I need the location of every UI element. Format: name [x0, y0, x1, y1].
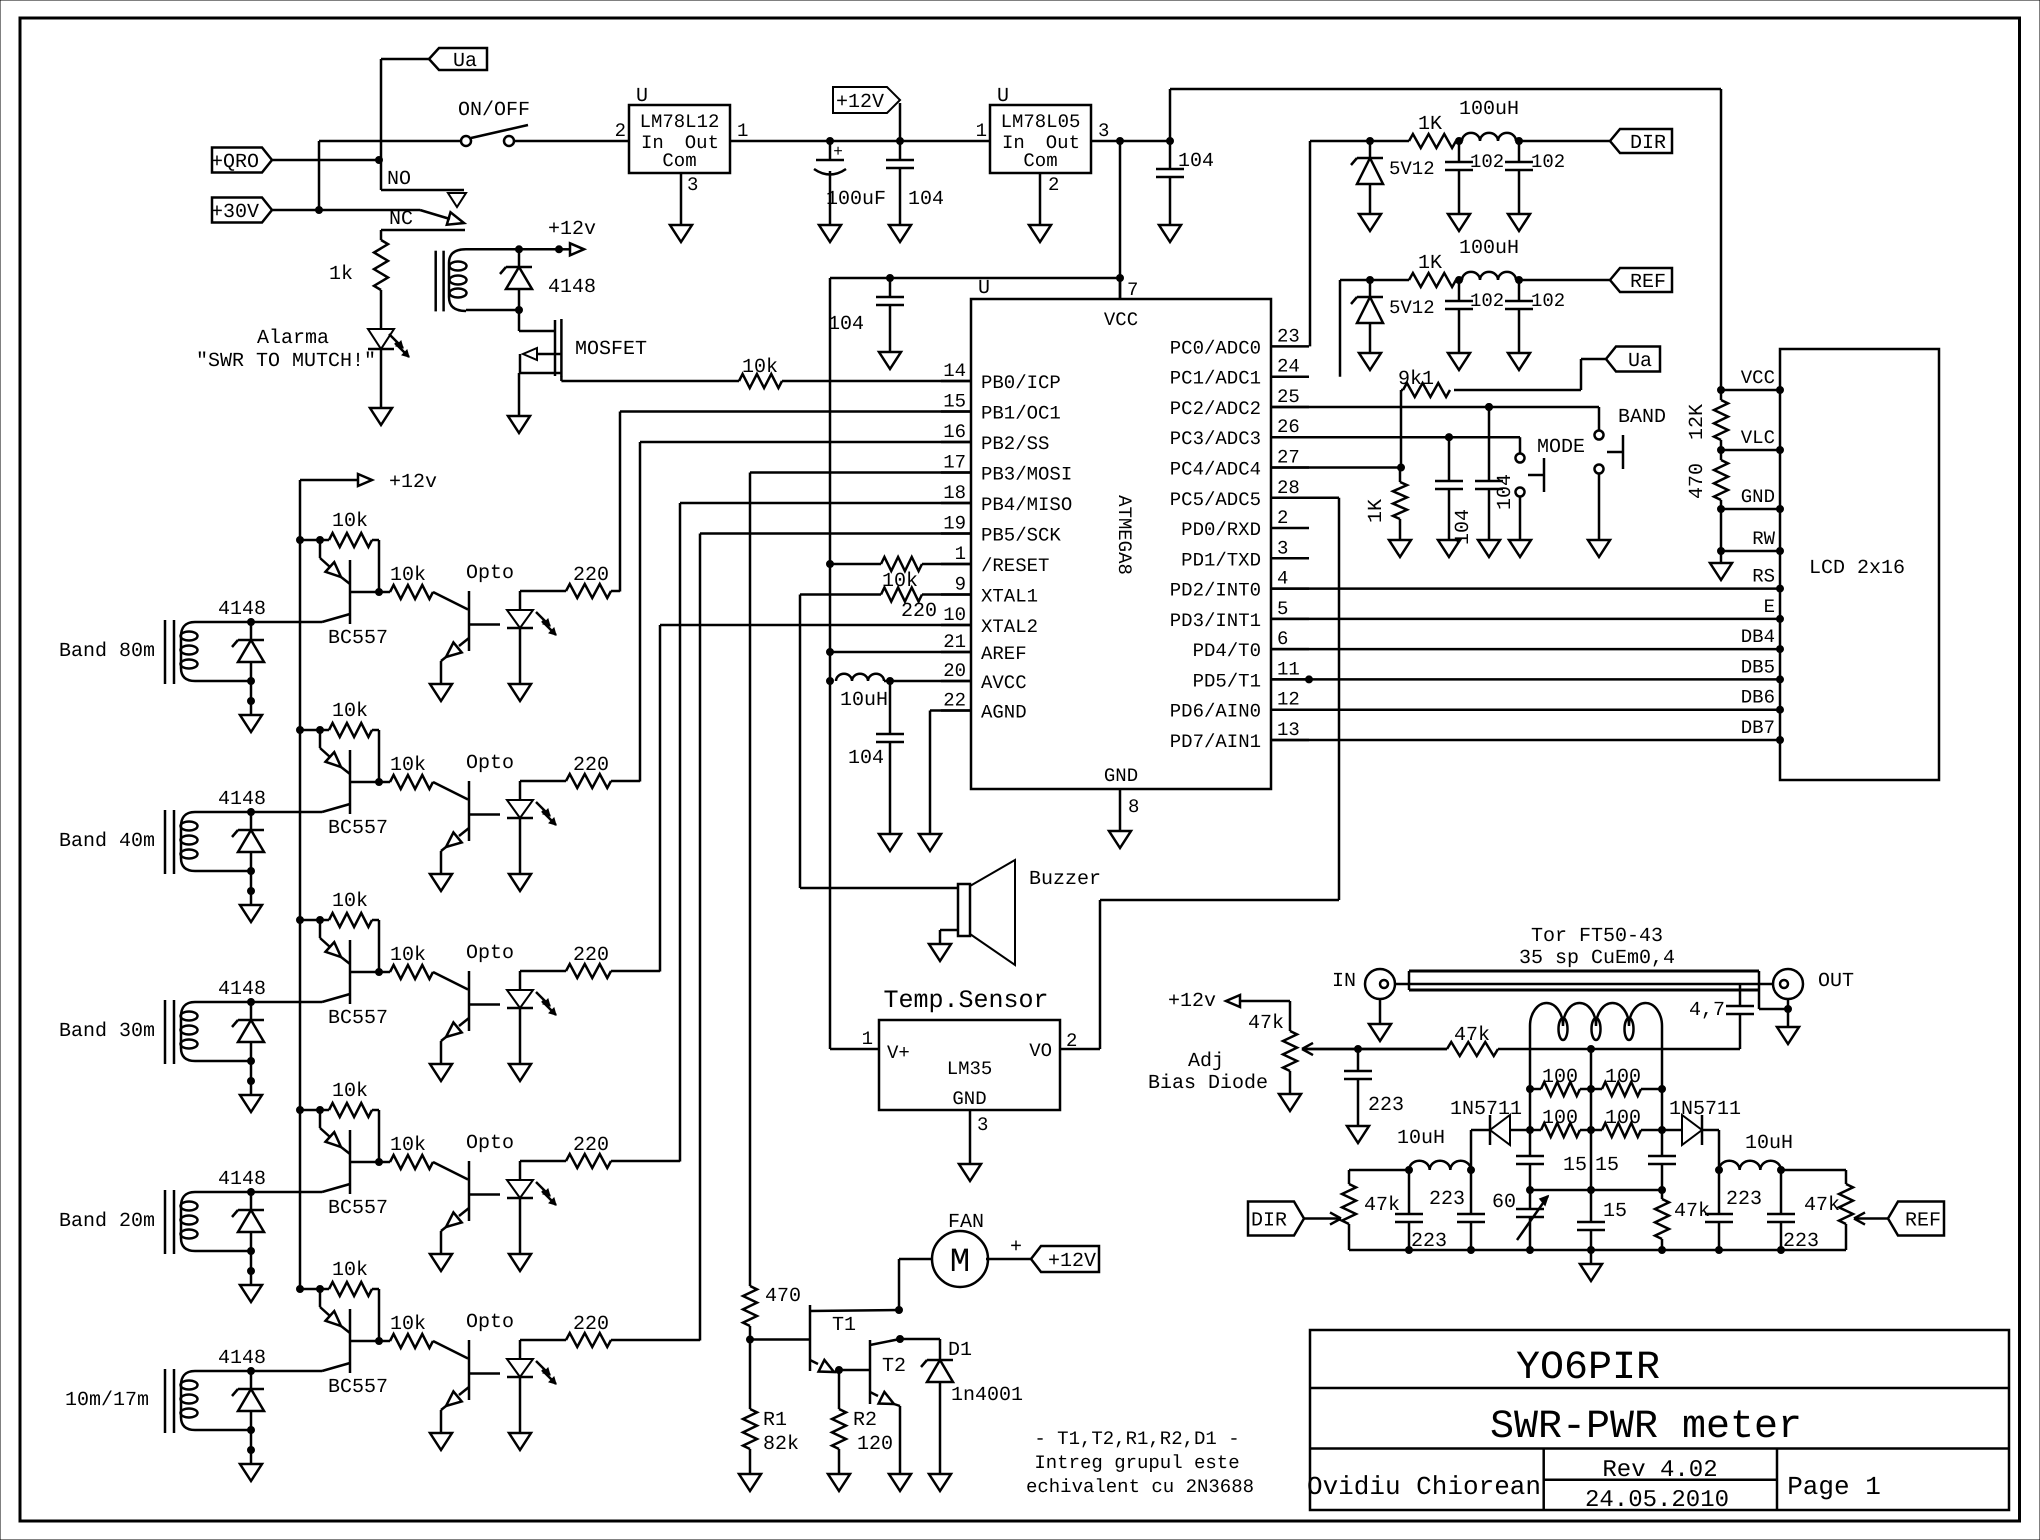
label Temp.Sensor [883, 986, 1048, 1015]
svg-text:Opto: Opto [466, 752, 514, 775]
svg-text:102: 102 [1531, 151, 1565, 173]
svg-text:DIR: DIR [1630, 132, 1666, 155]
+12v rail (band drivers) [300, 480, 358, 1289]
label 47k (REF pot) [1804, 1194, 1840, 1217]
wire PB5 to band5 [700, 534, 971, 1341]
LCD pin RW [1718, 528, 1784, 555]
pin 9 XTAL1 [941, 574, 1038, 608]
svg-text:R2: R2 [853, 1409, 877, 1432]
svg-text:4148: 4148 [218, 788, 266, 811]
ground below 100uF [819, 225, 841, 242]
svg-text:14: 14 [943, 360, 966, 382]
svg-text:4148: 4148 [218, 1168, 266, 1191]
wire PC2 row [1271, 404, 1599, 411]
svg-text:DB4: DB4 [1741, 626, 1775, 648]
optocoupler LED band1 [507, 591, 556, 684]
svg-text:GND: GND [1741, 486, 1775, 508]
svg-text:NO: NO [387, 168, 411, 191]
svg-text:47k: 47k [1248, 1012, 1284, 1035]
pin 23 PC0/ADC0 [1170, 325, 1309, 359]
capacitor 104 (AVCC) [848, 681, 904, 834]
regulator U LM78L05 [976, 85, 1110, 196]
label 47k (detector) [1674, 1200, 1710, 1223]
svg-text:220: 220 [573, 1313, 609, 1336]
svg-text:223: 223 [1429, 1188, 1465, 1211]
label 9k1 [1398, 368, 1434, 391]
svg-text:100uH: 100uH [1459, 98, 1519, 121]
resistor 10k base band2 [379, 775, 468, 800]
svg-text:100uF: 100uF [826, 188, 886, 211]
pushbutton MODE [1516, 437, 1545, 540]
title block frame [1310, 1330, 2009, 1510]
label 47k (DIR pot) [1364, 1194, 1400, 1217]
wire MOSFET drain to 10k [561, 376, 739, 381]
svg-text:1K: 1K [1418, 113, 1442, 136]
capacitor 104 (PC2) [1475, 404, 1517, 541]
ground below LM35 [959, 1164, 981, 1181]
resistor 1K (DIR) [1409, 134, 1463, 148]
svg-text:24: 24 [1277, 356, 1300, 378]
svg-text:XTAL2: XTAL2 [981, 616, 1038, 638]
resistor 220 band5 [520, 1333, 700, 1347]
svg-text:PC3/ADC3: PC3/ADC3 [1170, 428, 1261, 450]
diode 4148 band4 [232, 1192, 264, 1251]
svg-text:102: 102 [1470, 151, 1504, 173]
diode D1 1n4001 [900, 1339, 1023, 1474]
ground below D1 [929, 1474, 951, 1491]
ground below zener (DIR) [1359, 214, 1381, 231]
capacitor 102 a (REF) [1445, 280, 1504, 353]
wire LCD GND to RW [1720, 509, 1723, 563]
label 10k base band2 [390, 754, 426, 777]
optocoupler transistor band2 [441, 781, 500, 874]
wire line end to OUT [1759, 990, 1788, 1009]
resistor 10k pullup band2 [300, 723, 383, 786]
ground below IN [1369, 1024, 1391, 1041]
svg-text:GND: GND [952, 1088, 986, 1110]
ground below 104 (12V rail) [889, 225, 911, 242]
svg-text:5V12: 5V12 [1389, 297, 1435, 319]
svg-text:2: 2 [1277, 507, 1288, 529]
relay contact NO [381, 190, 466, 207]
svg-text:VCC: VCC [1104, 309, 1138, 331]
label 100 r1a [1542, 1066, 1578, 1089]
svg-text:4148: 4148 [218, 1347, 266, 1370]
svg-text:100uH: 100uH [1459, 237, 1519, 260]
wire relay bottom band3 [195, 1058, 255, 1096]
pin 16 PB2/SS [941, 421, 1049, 455]
transistor T2 [836, 1336, 907, 1475]
svg-text:+30V: +30V [211, 201, 259, 224]
LCD pin VLC [1718, 427, 1784, 454]
svg-text:Opto: Opto [466, 1311, 514, 1334]
title date 24.05.2010 [1585, 1487, 1729, 1514]
relay coil band3 [165, 1000, 198, 1064]
net flag DIR [1610, 129, 1672, 155]
wire Ua to 9k1 [1454, 359, 1606, 390]
ground below alarm LED [370, 408, 392, 425]
svg-text:470: 470 [765, 1285, 801, 1308]
optocoupler LED band5 [507, 1340, 556, 1433]
svg-text:+12v: +12v [1168, 990, 1216, 1013]
pin 19 PB5/SCK [941, 513, 1061, 547]
label 4,7 [1689, 999, 1725, 1022]
svg-text:4: 4 [1277, 568, 1288, 590]
svg-text:U: U [636, 85, 648, 108]
wire +30V [272, 209, 420, 212]
ground below buzzer [929, 944, 951, 961]
ground below relay band3 [240, 1095, 262, 1112]
svg-text:RS: RS [1752, 566, 1775, 588]
label band name Band 40m [59, 830, 155, 853]
svg-text:DIR: DIR [1251, 1209, 1287, 1232]
svg-text:10k: 10k [332, 700, 368, 723]
svg-text:220: 220 [573, 754, 609, 777]
wire XTAL2 to band3 [660, 625, 971, 972]
label BAND [1618, 406, 1666, 429]
svg-text:Intreg grupul este: Intreg grupul este [1034, 1452, 1239, 1474]
label OUT [1818, 970, 1854, 993]
svg-text:MOSFET: MOSFET [575, 338, 647, 361]
resistor 47k bias series [1447, 1042, 1498, 1056]
wire LM78L12 out [730, 140, 990, 143]
pin 24 PC1/ADC1 [1170, 356, 1309, 390]
capacitor 102 a (DIR) [1445, 141, 1504, 214]
svg-text:E: E [1764, 596, 1775, 618]
svg-text:1n4001: 1n4001 [951, 1384, 1023, 1407]
wire winding left leg [1527, 1026, 1534, 1093]
label 10k base band4 [390, 1134, 426, 1157]
ground below opto LED band1 [509, 684, 531, 701]
label 35 sp CuEm0,4 [1519, 947, 1675, 970]
svg-text:Band 40m: Band 40m [59, 830, 155, 853]
svg-text:- T1,T2,R1,R2,D1 -: - T1,T2,R1,R2,D1 - [1034, 1428, 1239, 1450]
note T1 T2 equivalence [1026, 1428, 1254, 1498]
svg-text:10uH: 10uH [840, 689, 888, 712]
svg-text:10: 10 [943, 604, 966, 626]
ground below opto transistor band2 [430, 874, 452, 891]
resistor 1K (PC4 divider) [1365, 468, 1407, 541]
svg-text:102: 102 [1531, 290, 1565, 312]
label 10k pullup band3 [332, 890, 368, 913]
svg-text:AREF: AREF [981, 643, 1027, 665]
label BC557 band2 [328, 817, 388, 840]
svg-text:25: 25 [1277, 386, 1300, 408]
wire relay bottom band5 [195, 1427, 255, 1465]
ground below 104 PC2 [1478, 540, 1500, 557]
svg-text:PD7/AIN1: PD7/AIN1 [1170, 731, 1261, 753]
wire PC5 to LM35 [1060, 498, 1339, 1049]
wire PB4 to band4 [680, 503, 971, 1162]
resistor 10k base band4 [379, 1155, 468, 1180]
label band name 10m/17m [65, 1389, 149, 1412]
relay contact pole [381, 230, 465, 240]
ground below 104 (VCC MCU) [879, 352, 901, 369]
wire PD7 to LCD DB7 [1271, 737, 1784, 744]
svg-text:SWR-PWR meter: SWR-PWR meter [1490, 1405, 1802, 1450]
svg-text:Page 1: Page 1 [1787, 1472, 1881, 1502]
power arrow +12v (bias) [1226, 995, 1290, 1007]
label NO [387, 168, 411, 191]
svg-text:8: 8 [1128, 796, 1139, 818]
svg-text:220: 220 [901, 600, 937, 623]
wire PB1 to band1 [620, 412, 971, 592]
svg-text:VCC: VCC [1741, 367, 1775, 389]
power arrow +12v (alarm relay) [548, 218, 596, 255]
ground below BAND [1588, 540, 1610, 557]
ground below 223 bias [1347, 1126, 1369, 1143]
inductor 10uH left [1397, 1127, 1471, 1174]
svg-text:120: 120 [857, 1433, 893, 1456]
title author Ovidiu Chiorean [1307, 1472, 1541, 1502]
wire PC4 row [1271, 466, 1401, 469]
ground below opto LED band2 [509, 874, 531, 891]
label 4148 band1 [218, 598, 266, 621]
label Opto band5 [466, 1311, 514, 1334]
optocoupler LED band4 [507, 1161, 556, 1254]
pin 26 PC3/ADC3 [1170, 416, 1309, 450]
svg-text:10m/17m: 10m/17m [65, 1389, 149, 1412]
diode 4148 flyback (alarm relay) [500, 249, 532, 310]
svg-text:1: 1 [737, 120, 748, 142]
wire PD6 to LCD DB6 [1271, 706, 1784, 713]
svg-text:Adj: Adj [1188, 1050, 1224, 1073]
diode 4148 band3 [232, 1002, 264, 1061]
inductor 10uH (AVCC) [827, 674, 972, 685]
pin 28 PC5/ADC5 [1170, 477, 1309, 511]
svg-text:U: U [978, 277, 990, 300]
ground below R2 [828, 1474, 850, 1491]
svg-text:104: 104 [828, 313, 864, 336]
resistor 10k pullup band4 [300, 1103, 383, 1166]
ground below R1 [739, 1474, 761, 1491]
wire winding right leg [1659, 1026, 1666, 1093]
resistor 220 band2 [520, 774, 640, 788]
svg-text:BC557: BC557 [328, 627, 388, 650]
label BC557 band5 [328, 1376, 388, 1399]
optocoupler LED band3 [507, 971, 556, 1064]
capacitor 102 b (REF) [1505, 280, 1565, 353]
svg-text:RW: RW [1752, 528, 1775, 550]
svg-text:11: 11 [1277, 658, 1300, 680]
svg-text:PB0/ICP: PB0/ICP [981, 372, 1061, 394]
wire relay bottom band2 [195, 868, 255, 906]
wire PD2 to LCD RS [1271, 585, 1784, 592]
svg-text:PB5/SCK: PB5/SCK [981, 525, 1061, 547]
ground below OUT [1777, 1027, 1799, 1044]
resistor 470 (LCD contrast) [1686, 450, 1728, 509]
pin 6 PD4/T0 [1193, 628, 1309, 662]
optocoupler transistor band5 [441, 1340, 500, 1433]
label 10k base band1 [390, 564, 426, 587]
ground below LM78L05 [1029, 225, 1051, 242]
LCD pin GND [1718, 486, 1784, 513]
ground below 104 PC3 [1438, 540, 1460, 557]
transistor BC557 band5 [320, 1289, 379, 1373]
svg-text:1K: 1K [1365, 499, 1388, 523]
connector IN [1365, 969, 1395, 1024]
sensor LM35 [862, 1020, 1078, 1136]
label 10k base band3 [390, 944, 426, 967]
svg-text:5V12: 5V12 [1389, 158, 1435, 180]
label 10k pullup band5 [332, 1259, 368, 1282]
svg-text:Opto: Opto [466, 942, 514, 965]
capacitor 100uF [814, 138, 886, 226]
svg-text:OUT: OUT [1818, 970, 1854, 993]
label 1N5711 (left) [1450, 1098, 1522, 1121]
wire relay top band3 [195, 999, 322, 1006]
pin 10 XTAL2 [941, 604, 1038, 638]
resistor 220 band1 [520, 584, 620, 598]
pushbutton BAND [1595, 407, 1624, 540]
label 10k pullup band2 [332, 700, 368, 723]
resistor 470 (fan) [743, 1286, 757, 1343]
svg-text:Temp.Sensor: Temp.Sensor [883, 986, 1048, 1015]
wire PB3 to fan driver [750, 473, 971, 1287]
svg-text:2: 2 [1048, 174, 1059, 196]
label 4148 band4 [218, 1168, 266, 1191]
inductor 100uH (REF) [1462, 272, 1610, 284]
label 4148 (alarm) [548, 276, 596, 299]
svg-text:M: M [950, 1244, 970, 1282]
diode 1N5711 left [1468, 1115, 1530, 1174]
svg-text:PB2/SS: PB2/SS [981, 433, 1049, 455]
potentiometer 47k DIR [1342, 1170, 1409, 1250]
svg-text:10k: 10k [332, 1259, 368, 1282]
svg-text:15: 15 [943, 391, 966, 413]
label ON/OFF [458, 99, 530, 122]
ground below 102 a (DIR) [1448, 214, 1470, 231]
label FAN [948, 1211, 984, 1234]
svg-text:PD2/INT0: PD2/INT0 [1170, 580, 1261, 602]
wire LM78L05 com [1039, 173, 1042, 225]
label 220 band5 [573, 1313, 609, 1336]
capacitor 223 (dir b) [1429, 1170, 1485, 1250]
capacitor 104 (12V rail) [886, 141, 944, 225]
svg-text:470: 470 [1686, 463, 1709, 499]
label 10k pullup band1 [332, 510, 368, 533]
ground below 102 b (REF) [1508, 353, 1530, 370]
resistor 10k pullup band5 [300, 1282, 383, 1345]
svg-text:19: 19 [943, 513, 966, 535]
pin 7 VCC stub [1120, 278, 1138, 301]
svg-text:In: In [641, 132, 664, 154]
pin 4 PD2/INT0 [1170, 568, 1309, 602]
svg-text:PB3/MOSI: PB3/MOSI [981, 464, 1072, 486]
ground below LCD RW [1710, 563, 1732, 580]
svg-text:10k: 10k [332, 510, 368, 533]
pin 8 GND stub [1120, 789, 1139, 831]
svg-text:3: 3 [687, 174, 698, 196]
wire relay bottom band4 [195, 1248, 255, 1286]
svg-text:MODE: MODE [1537, 436, 1585, 459]
relay coil band2 [165, 810, 198, 874]
label Opto band4 [466, 1132, 514, 1155]
capacitor 104 (5V rail) [1156, 141, 1214, 225]
svg-text:10uH: 10uH [1745, 1132, 1793, 1155]
svg-text:DB7: DB7 [1741, 717, 1775, 739]
svg-text:Ua: Ua [1628, 350, 1652, 373]
ground below 104 (5V rail) [1159, 225, 1181, 242]
transistor BC557 band2 [320, 730, 379, 814]
diode 1N5711 right [1662, 1115, 1723, 1174]
ground below T2 [889, 1474, 911, 1491]
svg-text:PD0/RXD: PD0/RXD [1181, 519, 1261, 541]
relay contact NC [420, 210, 464, 225]
svg-text:16: 16 [943, 421, 966, 443]
svg-text:4148: 4148 [548, 276, 596, 299]
wiper arrow DIR [1304, 1212, 1341, 1224]
svg-text:PC1/ADC1: PC1/ADC1 [1170, 368, 1261, 390]
wire relay top band2 [195, 809, 322, 816]
svg-text:15: 15 [1563, 1154, 1587, 1177]
label band name Band 20m [59, 1210, 155, 1233]
capacitor 223 (ref b) [1767, 1170, 1819, 1253]
wiper arrow REF [1854, 1212, 1888, 1224]
label SWR TO MUTCH! [196, 350, 376, 373]
ground below zener (REF) [1359, 353, 1381, 370]
wire LM35 GND pin [969, 1110, 972, 1164]
svg-text:Com: Com [1023, 150, 1057, 172]
resistor 10k base band1 [379, 585, 468, 610]
svg-text:1: 1 [955, 543, 966, 565]
svg-text:Rev 4.02: Rev 4.02 [1602, 1457, 1717, 1484]
label 10k pullup band4 [332, 1080, 368, 1103]
wire PC pin to REF row [1340, 277, 1409, 377]
ground below LM78L12 [670, 225, 692, 242]
svg-text:100: 100 [1605, 1107, 1641, 1130]
net flag +12V (top) [833, 87, 904, 145]
ground below opto LED band4 [509, 1254, 531, 1271]
svg-text:Band 20m: Band 20m [59, 1210, 155, 1233]
label 47k (bias series) [1454, 1024, 1490, 1047]
ground below 102 b (DIR) [1508, 214, 1530, 231]
resistor 220 band3 [520, 964, 660, 978]
wire AREF to rail [827, 649, 972, 656]
optocoupler transistor band1 [441, 591, 500, 684]
resistor R2 120 [832, 1370, 893, 1474]
resistor 1K (REF) [1409, 273, 1463, 287]
wire switch to +30V node [316, 141, 323, 214]
svg-text:9: 9 [955, 574, 966, 596]
svg-text:"SWR TO MUTCH!": "SWR TO MUTCH!" [196, 350, 376, 373]
net flag REF (det) [1888, 1202, 1944, 1236]
label band name Band 30m [59, 1020, 155, 1043]
ground below MOSFET source [508, 416, 530, 433]
coupler secondary winding [1530, 1003, 1662, 1040]
svg-text:+12v: +12v [548, 218, 596, 241]
resistor 220 band4 [520, 1154, 680, 1168]
svg-text:15: 15 [1595, 1154, 1619, 1177]
svg-text:47k: 47k [1804, 1194, 1840, 1217]
microcontroller U ATMEGA8 [971, 277, 1271, 789]
pin 18 PB4/MISO [941, 482, 1072, 516]
LCD pin label DB6 [1741, 687, 1775, 709]
svg-text:PB1/OC1: PB1/OC1 [981, 403, 1061, 425]
relay coil K0 (alarm) [436, 249, 467, 311]
label Opto band2 [466, 752, 514, 775]
svg-text:+12V: +12V [836, 91, 884, 114]
label 220 band3 [573, 944, 609, 967]
svg-text:18: 18 [943, 482, 966, 504]
svg-text:15: 15 [1603, 1200, 1627, 1223]
svg-text:DB6: DB6 [1741, 687, 1775, 709]
svg-text:PD6/AIN0: PD6/AIN0 [1170, 701, 1261, 723]
wire VCC branch to MCU [830, 141, 1124, 1049]
ground below opto transistor band1 [430, 684, 452, 701]
label 60 (trimmer) [1492, 1191, 1516, 1214]
wire gate [519, 310, 555, 331]
